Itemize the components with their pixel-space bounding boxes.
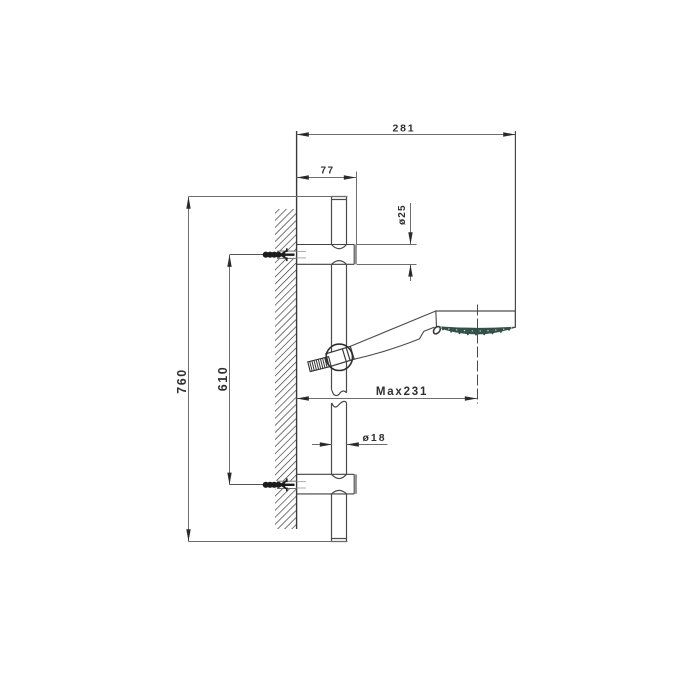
wall drill hole top (white gap in hatch) [274, 251, 297, 259]
spray face speckles [440, 327, 512, 332]
holder clamp block [326, 346, 354, 366]
wall surface line [296, 131, 298, 529]
top mounting bracket [297, 245, 356, 265]
dim 760 bottom connector (to rail bottom) [189, 541, 348, 543]
drill hole lines top [277, 251, 297, 258]
screw hidden lines top bracket [297, 252, 306, 258]
head hook crescent [432, 325, 442, 335]
rail tube bottom segment [332, 494, 347, 542]
rail bottom cap [331, 539, 347, 542]
wall drill hole bottom (white gap in hatch) [274, 481, 297, 489]
rail tube mid segment [332, 264, 347, 393]
dim 77 line [297, 177, 356, 179]
handle cone outline [350, 311, 436, 359]
tube neck arc into bottom bracket [332, 474, 347, 478]
dim Max231 arrows [297, 396, 477, 400]
tube bulge arc below top bracket [332, 261, 347, 265]
dim 610 arrows [227, 255, 231, 485]
dim 77 arrows [297, 175, 356, 179]
tube bulge arc below bottom bracket [332, 490, 347, 494]
svg-text:610: 610 [216, 366, 230, 391]
drill hole lines bottom [277, 481, 297, 488]
dim o18 line with arrows [312, 444, 388, 446]
holder circle [326, 344, 352, 370]
spray nozzles under face [442, 328, 510, 335]
dim 281 line [297, 134, 516, 136]
svg-text:ø18: ø18 [362, 432, 386, 444]
shower head spray face [437, 327, 516, 334]
dim 610 vertical line [229, 255, 231, 485]
head centre dashed line [477, 305, 479, 404]
svg-text:Max231: Max231 [376, 386, 428, 398]
wall anchor screw top [230, 248, 295, 261]
bottom mounting bracket [297, 474, 356, 494]
dim 760 arrows [186, 197, 190, 542]
svg-text:77: 77 [320, 166, 334, 177]
rail tube upper segment [332, 197, 347, 245]
dim o25 extension lines [357, 245, 417, 265]
rail top cap [331, 197, 347, 200]
dim 760 vertical line [188, 197, 190, 542]
handle cone body [350, 311, 436, 359]
rail tube lower-mid segment [332, 403, 347, 475]
dim 281 arrows [297, 132, 516, 136]
dim o25 vertical line with arrows [410, 203, 412, 281]
svg-text:760: 760 [175, 368, 189, 393]
shower head body [436, 311, 516, 328]
dim 77 right extension [356, 172, 358, 245]
tube neck arc into top bracket [332, 245, 347, 249]
screw hidden lines bottom bracket [297, 482, 306, 488]
svg-text:ø25: ø25 [397, 204, 408, 225]
wall hatched section [275, 209, 297, 529]
dim Max231 line [297, 398, 477, 400]
holder knob (ridged screw) [308, 357, 331, 372]
svg-text:281: 281 [393, 122, 416, 134]
tube break lower squiggle [332, 401, 347, 407]
wall anchor screw bottom [230, 478, 295, 491]
dim 760 top connector (to rail top) [189, 196, 348, 198]
dim 281 right extension / head right edge [514, 131, 516, 327]
tube break upper squiggle [332, 390, 347, 395]
